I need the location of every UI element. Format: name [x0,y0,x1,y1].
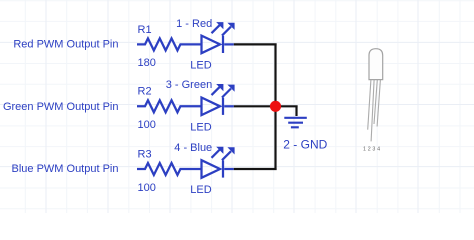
svg-text:1 - Red: 1 - Red [176,18,212,30]
svg-text:Green PWM Output Pin: Green PWM Output Pin [3,101,119,113]
svg-text:R1: R1 [138,24,152,36]
svg-text:4 - Blue: 4 - Blue [174,142,212,154]
svg-text:100: 100 [138,182,156,194]
svg-text:LED: LED [190,122,211,134]
svg-text:LED: LED [190,60,211,72]
svg-text:Blue PWM Output Pin: Blue PWM Output Pin [12,163,119,175]
svg-text:LED: LED [190,184,211,196]
svg-text:2 - GND: 2 - GND [283,138,327,152]
svg-text:180: 180 [138,57,156,69]
svg-text:3: 3 [372,147,375,153]
svg-text:3 - Green: 3 - Green [166,79,212,91]
svg-text:2: 2 [368,147,371,153]
svg-text:100: 100 [138,119,156,131]
svg-text:R2: R2 [138,86,152,98]
svg-text:R3: R3 [138,148,152,160]
svg-text:4: 4 [377,147,380,153]
svg-text:Red PWM Output Pin: Red PWM Output Pin [13,39,118,51]
svg-text:1: 1 [363,147,366,153]
